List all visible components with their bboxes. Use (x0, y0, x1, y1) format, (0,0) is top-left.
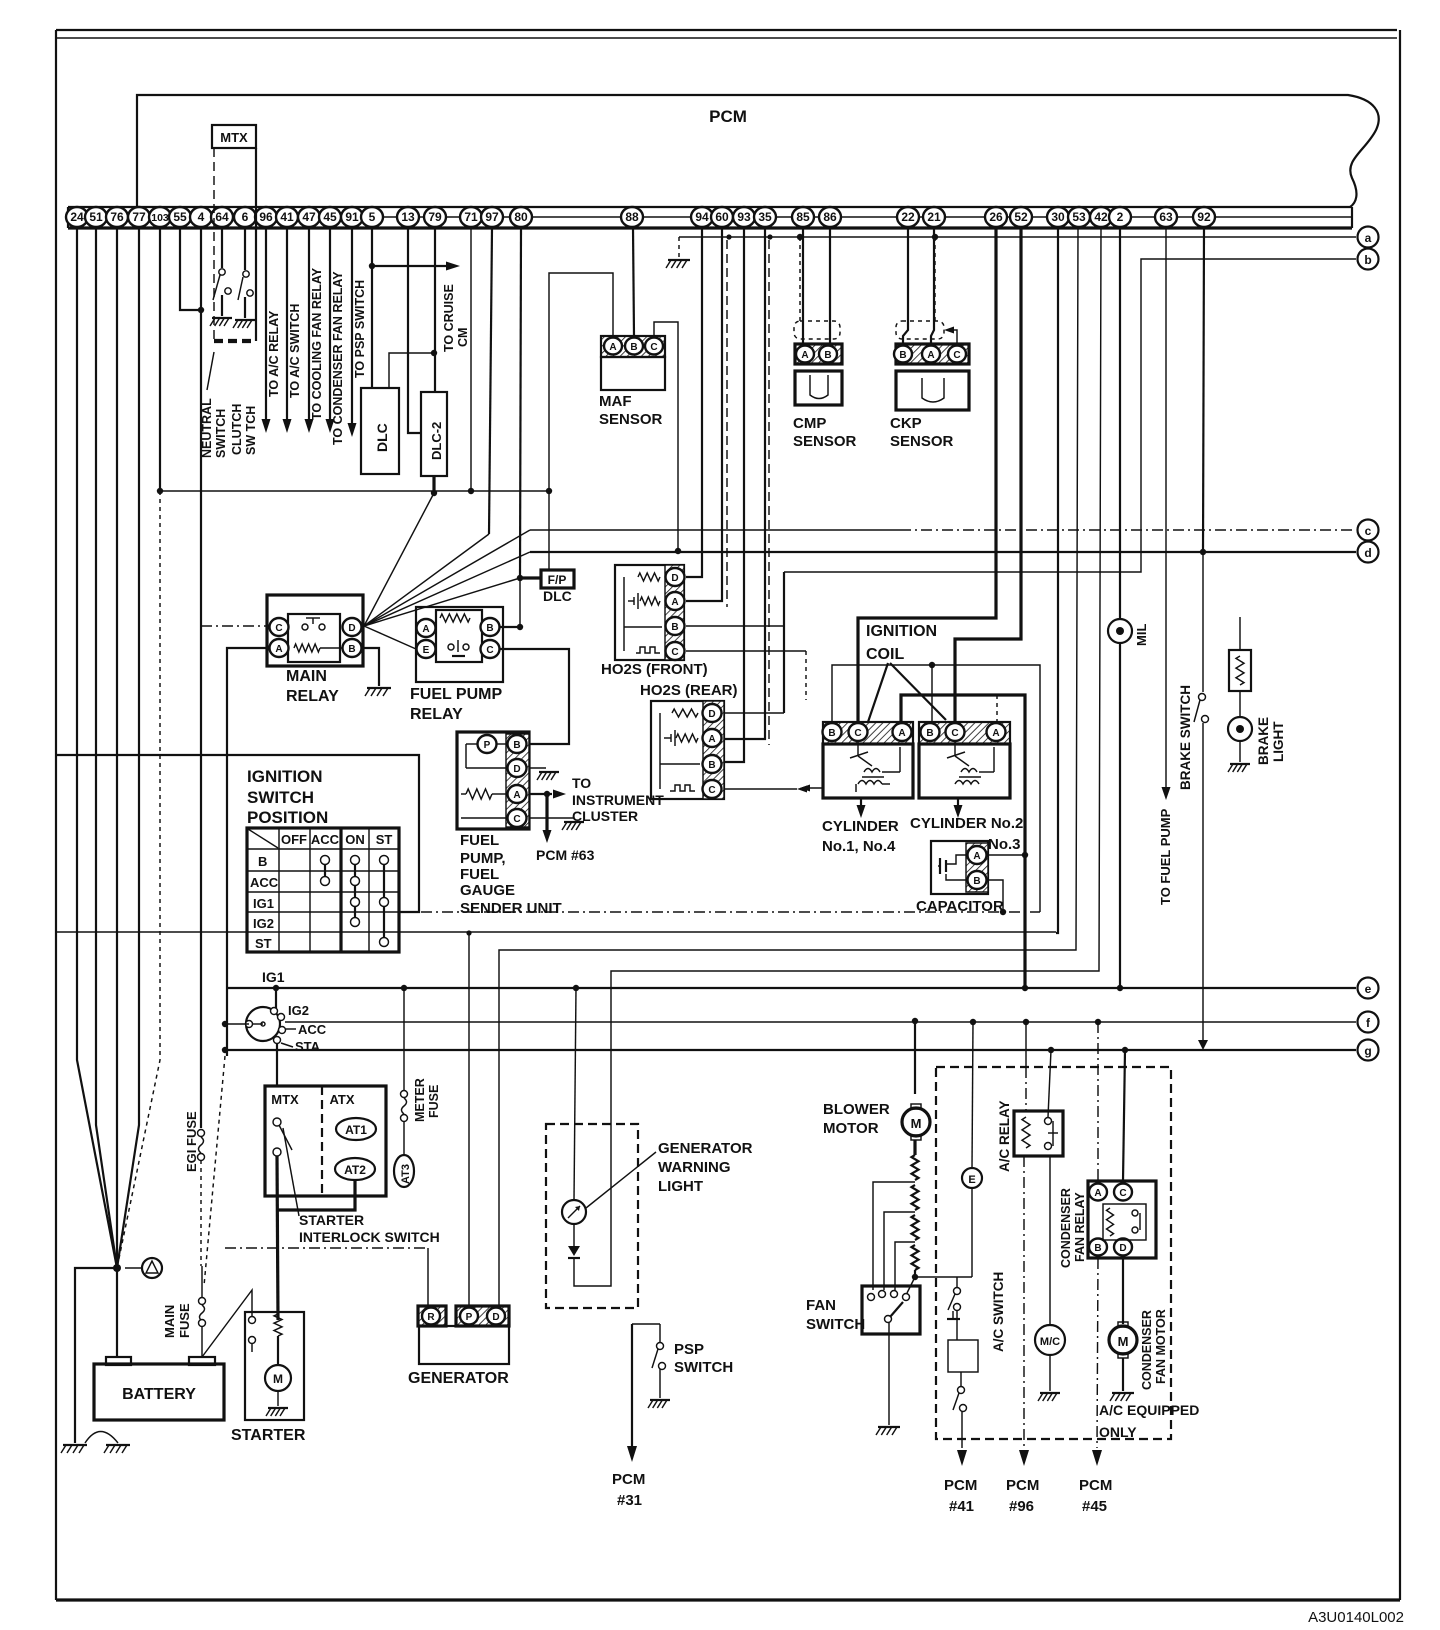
svg-text:OFF: OFF (281, 832, 307, 847)
svg-text:A: A (671, 597, 678, 608)
junction pin 103 / MAF feed (157, 488, 163, 494)
PCM pin 85 (792, 207, 814, 227)
PCM module outline (137, 95, 1379, 208)
svg-text:R: R (427, 1312, 435, 1323)
starter interlock label pointer (283, 1128, 299, 1216)
coil1 spark output arrow (802, 787, 823, 789)
A/C thermo box (956, 1311, 958, 1340)
lower-left section box (56, 755, 419, 912)
wire pin 13 to DLC-2 (408, 228, 421, 433)
wire capacitor B to ground line (988, 880, 1003, 912)
CKP cable shield (934, 237, 936, 323)
ignition coil 1 body (823, 744, 913, 798)
fuel pump relay pin E (417, 640, 436, 658)
svg-text:63: 63 (1159, 210, 1173, 224)
wire front B to rear D riser (686, 625, 784, 627)
main relay pin C (270, 618, 289, 636)
interlock switch contacts (273, 1118, 281, 1126)
svg-text:ACC: ACC (250, 875, 279, 890)
fuel pump relay pin C (481, 640, 500, 658)
wire pin 85 to CMP A (802, 228, 804, 344)
svg-text:A: A (992, 728, 999, 739)
PSP switch (657, 1343, 664, 1350)
generator main strip (456, 1306, 509, 1326)
generator warning line pin 42 (611, 228, 1101, 1201)
ground neutral switch (212, 317, 232, 319)
PCM pin 13 (397, 207, 419, 227)
wire AT2 to starter line (278, 1180, 355, 1210)
node f bus line IG2 (285, 1021, 1356, 1023)
junction CKP shield on bus a (932, 234, 938, 240)
table contacts ACC column (324, 860, 326, 881)
node a (1358, 227, 1379, 248)
ignition coil 1 connector strip (823, 722, 913, 744)
svg-text:51: 51 (89, 210, 103, 224)
PCM pin 35 (754, 207, 776, 227)
generator warning lamp (562, 1200, 586, 1224)
wire pin 26 to coil1 C (858, 228, 996, 722)
svg-text:CYLINDER No.2: CYLINDER No.2 (910, 815, 1023, 832)
svg-text:B: B (630, 342, 637, 353)
dashed link coil2 A (996, 695, 998, 722)
ground junction node (113, 1264, 121, 1272)
svg-text:GAUGE: GAUGE (460, 882, 515, 899)
svg-text:A/C EQUIPPED: A/C EQUIPPED (1099, 1402, 1199, 1418)
wire pin 5 to DLC (371, 228, 373, 388)
svg-text:PCM: PCM (1006, 1477, 1039, 1494)
svg-text:CLUTCH: CLUTCH (230, 404, 244, 455)
junction IG1 wire (273, 985, 279, 991)
svg-text:STARTER: STARTER (231, 1427, 306, 1444)
shield front A dashed (726, 240, 728, 607)
svg-text:ACC: ACC (311, 832, 340, 847)
svg-text:LIGHT: LIGHT (658, 1178, 703, 1195)
svg-text:DLC: DLC (543, 588, 572, 604)
ignition switch body (246, 1007, 280, 1041)
condenser fan motor (1109, 1326, 1137, 1354)
svg-text:B: B (258, 854, 267, 869)
svg-text:CKP: CKP (890, 415, 922, 432)
HO2S rear pin C (703, 780, 722, 798)
MIL lamp (1108, 619, 1132, 643)
node b bus line (784, 259, 1356, 572)
blower resistor chain (913, 1140, 916, 1155)
DLC-2 connector box (421, 392, 447, 476)
wire A/C relay to magnetic clutch (1049, 1156, 1051, 1325)
warning light label pointer (586, 1152, 656, 1208)
fuel pump relay outer box (416, 607, 503, 682)
svg-text:WARNING: WARNING (658, 1159, 731, 1176)
capacitor feed from coil power line (988, 854, 1025, 856)
wire A/C relay coil to PCM 96 (1023, 1156, 1025, 1448)
svg-text:E: E (968, 1174, 975, 1186)
wire sender D to ground (529, 767, 546, 769)
svg-text:METER: METER (413, 1078, 427, 1122)
svg-text:COIL: COIL (866, 646, 904, 663)
wire pin 41 to A/C switch (286, 228, 288, 428)
svg-text:#41: #41 (949, 1498, 974, 1515)
svg-text:MAIN: MAIN (162, 1305, 177, 1338)
wire pin 52 to coil2 C (955, 228, 1021, 722)
svg-text:TO A/C SWITCH: TO A/C SWITCH (288, 304, 302, 398)
resistor tap 2 (884, 1212, 915, 1290)
svg-text:a: a (1365, 231, 1372, 245)
svg-text:D: D (671, 573, 678, 584)
fan wire D to bus c (364, 530, 530, 626)
junction A/C relay on bus g (1048, 1047, 1054, 1053)
sender pin A (508, 785, 527, 803)
PCM pin 51 (85, 207, 107, 227)
fan wire D to fuel pump relay E (364, 626, 416, 649)
junction blower on bus f (912, 1018, 918, 1024)
PCM pin 47 (298, 207, 320, 227)
HO2S rear outer box (651, 701, 724, 799)
PCM pin 86 (819, 207, 841, 227)
coil2 internals (954, 742, 956, 756)
PCM pin 30 (1047, 207, 1069, 227)
node f (1358, 1012, 1379, 1033)
svg-text:P: P (466, 1312, 473, 1323)
long row line y=912 dash-dot (421, 911, 1040, 913)
wire to PCM 41 (961, 1411, 963, 1448)
brake switch wire lower to bus g (1202, 723, 1204, 1044)
svg-text:C: C (275, 623, 282, 634)
svg-text:GENERATOR: GENERATOR (658, 1140, 753, 1157)
wire DLC-2 to junction (432, 476, 435, 493)
svg-text:No.1, No.4: No.1, No.4 (822, 838, 896, 855)
svg-text:#96: #96 (1009, 1498, 1034, 1515)
meter fuse (401, 1091, 408, 1098)
PCM pin 64 (211, 207, 233, 227)
svg-text:#31: #31 (617, 1492, 642, 1509)
wire pin 94 to front D (686, 228, 702, 577)
MAF sensor body (601, 357, 665, 390)
HO2S rear pin strip (703, 701, 724, 799)
long row line y=932 (57, 931, 247, 933)
wire pin 96 to A/C relay (265, 228, 267, 428)
svg-text:13: 13 (401, 210, 415, 224)
svg-text:DLC-2: DLC-2 (429, 422, 444, 460)
svg-text:92: 92 (1197, 210, 1211, 224)
table contacts ST column (383, 860, 385, 942)
wire pin 6 to clutch switch (244, 228, 246, 270)
node d (1358, 542, 1379, 563)
PCM pin 24 (66, 207, 88, 227)
warning light dashed box (546, 1124, 638, 1308)
svg-text:SWITCH: SWITCH (674, 1359, 733, 1376)
wire junction to battery minus (116, 1268, 118, 1357)
fan switch ground wire (888, 1323, 890, 1425)
svg-text:A: A (513, 790, 520, 801)
svg-text:45: 45 (323, 210, 337, 224)
PCM pin 5 (361, 207, 383, 227)
MTX enclosure dashed (213, 148, 215, 341)
wire pin103/DLC junction line (160, 490, 549, 492)
svg-text:IGNITION: IGNITION (247, 767, 323, 786)
svg-text:FUEL PUMP: FUEL PUMP (410, 686, 502, 703)
resistor tap 1 (873, 1182, 915, 1290)
svg-text:TO: TO (572, 775, 591, 791)
svg-text:C: C (671, 647, 678, 658)
main fuse (201, 1266, 203, 1297)
svg-text:TO FUEL PUMP: TO FUEL PUMP (1158, 808, 1173, 905)
svg-text:MTX: MTX (220, 130, 248, 145)
CMP cable shield (799, 237, 801, 323)
wire DLC second pin (389, 353, 434, 388)
wire front C stub (686, 650, 806, 652)
svg-text:RELAY: RELAY (410, 706, 463, 723)
table header diagonal (248, 829, 278, 848)
svg-text:IGNITION: IGNITION (866, 623, 937, 640)
wire coil power A (901, 695, 1025, 988)
svg-text:SW TCH: SW TCH (244, 406, 258, 455)
fan switch box (862, 1286, 920, 1334)
svg-text:BRAKE SWITCH: BRAKE SWITCH (1178, 685, 1193, 790)
PCM pin 103 (149, 207, 171, 227)
junction coil power on bus e (1022, 985, 1028, 991)
PCM pin 88 (621, 207, 643, 227)
wire bus g to condenser relay switch (1123, 1050, 1125, 1181)
fuel pump relay inner body (436, 610, 482, 662)
fan wire D to F/P DLC (364, 578, 520, 626)
brake switch wire upper (1202, 552, 1204, 692)
fan wire D to DLC junction (364, 493, 434, 626)
brake light feed stub (1239, 617, 1241, 650)
coil2 output arrow down (957, 798, 959, 808)
wire pin 63 to fuel pump (1165, 228, 1167, 788)
wire pin 35 to rear A (724, 228, 765, 739)
resistor tap 3 (895, 1242, 915, 1290)
svg-text:AT3: AT3 (400, 1164, 412, 1184)
sender pin B (508, 735, 527, 753)
svg-text:TO CONDENSER FAN RELAY: TO CONDENSER FAN RELAY (331, 271, 345, 445)
svg-text:ONLY: ONLY (1099, 1424, 1137, 1440)
PCM pin strip (68, 206, 1352, 208)
MTX label box (212, 125, 256, 148)
neutral switch label (207, 352, 214, 390)
wire pin 88 to MAF B (633, 228, 634, 336)
wire fuel pump relay C to sender B (500, 649, 569, 744)
svg-text:SWITCH: SWITCH (247, 788, 314, 807)
svg-text:SENSOR: SENSOR (599, 411, 663, 428)
svg-text:64: 64 (215, 210, 229, 224)
svg-text:CM: CM (456, 328, 470, 347)
CMP sensor connector (795, 344, 842, 364)
svg-text:INSTRUMENT: INSTRUMENT (572, 792, 664, 808)
svg-text:SWITCH: SWITCH (214, 409, 228, 458)
HO2S front internals (623, 577, 625, 651)
wire F/P DLC from junction (548, 491, 550, 571)
svg-text:P: P (484, 740, 491, 751)
svg-text:B: B (824, 350, 831, 361)
svg-text:A: A (275, 644, 282, 655)
svg-text:D: D (708, 709, 715, 720)
brake light ground (1239, 741, 1241, 762)
svg-text:80: 80 (514, 210, 528, 224)
wire pin 60 to front A (686, 228, 722, 601)
PCM pin 63 (1155, 207, 1177, 227)
pointer lines from label to coils (868, 663, 888, 722)
svg-text:M/C: M/C (1040, 1336, 1060, 1348)
shield rear A dashed (768, 240, 770, 745)
wire rear D to riser (724, 712, 784, 714)
wire meter fuse (403, 988, 405, 1090)
wire pin 80 to F/P DLC junction (520, 228, 521, 578)
junction condenser relay on bus g (1122, 1047, 1128, 1053)
PCM pin 77 (128, 207, 150, 227)
svg-text:B: B (486, 623, 493, 634)
svg-text:CMP: CMP (793, 415, 826, 432)
svg-text:FUEL: FUEL (460, 866, 499, 883)
wire IG1 to ignition switch (275, 988, 277, 1008)
wire pin 4 / EGI fuse feed (200, 228, 202, 1128)
svg-text:60: 60 (715, 210, 729, 224)
svg-text:93: 93 (737, 210, 751, 224)
wire MAF A feed riser (549, 273, 613, 491)
wire STA to interlock switch (276, 1044, 278, 1086)
warning light diode (573, 1224, 575, 1246)
A/C relay box (1014, 1111, 1063, 1156)
wire pin 86 to CMP B (829, 228, 831, 344)
svg-text:ON: ON (345, 832, 365, 847)
wire pin 71 (470, 228, 472, 491)
svg-text:76: 76 (110, 210, 124, 224)
svg-text:NEUTRAL: NEUTRAL (200, 398, 214, 458)
brake light lamp (1228, 717, 1252, 741)
wire sender A junction (529, 793, 552, 795)
sender pin P (478, 735, 497, 753)
MAF pin C (645, 338, 663, 355)
ground main relay (367, 687, 391, 689)
ignition switch position table (247, 828, 399, 952)
wire pin 79 to DLC-2 (434, 228, 436, 392)
svg-text:24: 24 (70, 210, 84, 224)
svg-text:SENDER UNIT: SENDER UNIT (460, 900, 562, 917)
svg-text:MIL: MIL (1134, 624, 1149, 646)
arrow to instrument cluster (553, 790, 566, 799)
generator P riser (468, 933, 470, 1306)
PCM pin 21 (923, 207, 945, 227)
svg-text:SWITCH: SWITCH (806, 1316, 865, 1333)
HO2S front pin D (666, 568, 685, 586)
svg-text:5: 5 (369, 210, 376, 224)
svg-text:ATX: ATX (329, 1092, 354, 1107)
svg-text:M: M (911, 1116, 922, 1131)
fuel pump relay switch (448, 644, 454, 650)
svg-text:IG2: IG2 (253, 916, 274, 931)
wire diode to riser (574, 1201, 611, 1286)
svg-text:ACC: ACC (298, 1022, 327, 1037)
wire pin 92 (1203, 228, 1204, 552)
svg-text:B: B (926, 728, 933, 739)
svg-text:STARTER: STARTER (299, 1212, 364, 1228)
A/C lower switch (960, 1372, 962, 1386)
svg-text:MAF: MAF (599, 393, 632, 410)
main relay inner body (288, 614, 340, 662)
node g bus line B+ (225, 1049, 1356, 1051)
sender pin C (508, 809, 527, 827)
svg-text:A: A (609, 342, 616, 353)
svg-text:c: c (1365, 524, 1372, 538)
magnetic clutch M/C (1035, 1325, 1065, 1355)
svg-text:HO2S (REAR): HO2S (REAR) (640, 682, 738, 699)
starter motor (277, 1336, 279, 1365)
svg-text:STA: STA (295, 1039, 321, 1054)
svg-text:DLC: DLC (374, 423, 390, 452)
svg-text:PCM: PCM (709, 107, 747, 126)
svg-text:TO PSP SWITCH: TO PSP SWITCH (353, 280, 367, 378)
junction MAF C on bus d (675, 548, 681, 554)
wire pin 47 to cooling fan relay (308, 228, 310, 428)
svg-text:A3U0140L002: A3U0140L002 (1308, 1609, 1404, 1626)
svg-text:IG1: IG1 (262, 969, 285, 985)
HO2S rear internals (659, 713, 661, 789)
CKP sensor connector (896, 344, 969, 364)
svg-text:PSP: PSP (674, 1341, 704, 1358)
wire pin 21 to CKP A (931, 228, 934, 344)
starter solenoid contacts (249, 1317, 256, 1324)
wire bus f to blower motor (914, 1021, 916, 1094)
junction meter fuse on bus e (401, 985, 407, 991)
ignition coil 2 connector strip (919, 722, 1010, 744)
wire CKP C link (948, 330, 957, 344)
svg-text:TO CRUISE: TO CRUISE (442, 284, 456, 352)
fuel pump sender outer box (457, 732, 529, 829)
svg-text:BRAKE: BRAKE (1256, 717, 1271, 765)
generator R strip (418, 1306, 446, 1326)
svg-text:96: 96 (259, 210, 273, 224)
fan wire D to pin 97 (364, 534, 489, 626)
svg-text:MTX: MTX (271, 1092, 299, 1107)
svg-text:A: A (422, 624, 429, 635)
wire pin 77 to ground junction (117, 228, 139, 1268)
svg-text:41: 41 (280, 210, 294, 224)
clutch switch (243, 271, 249, 277)
svg-text:55: 55 (173, 210, 187, 224)
capacitor element (939, 858, 941, 874)
svg-text:A: A (708, 734, 715, 745)
main relay coil (294, 644, 320, 652)
wire pin 24 to ground junction (77, 228, 117, 1268)
wire junction to chassis ground (75, 1268, 117, 1443)
PCM pin 79 (424, 207, 446, 227)
svg-text:B: B (973, 876, 980, 887)
wire pin 2 to MIL (1119, 228, 1121, 619)
wire main relay A to battery rail (227, 648, 269, 1056)
main relay pin D (343, 618, 362, 636)
svg-text:B: B (671, 622, 678, 633)
svg-text:TO COOLING FAN RELAY: TO COOLING FAN RELAY (310, 267, 324, 420)
svg-text:CONDENSER: CONDENSER (1140, 1310, 1154, 1390)
wire main relay B to ground (362, 648, 379, 686)
svg-text:EGI FUSE: EGI FUSE (184, 1111, 199, 1172)
junction warning light on bus e (573, 985, 579, 991)
main relay switch contacts (302, 624, 308, 630)
condenser fan relay box (1088, 1181, 1156, 1258)
svg-text:E: E (423, 645, 430, 656)
wire main fuse to battery + (201, 1326, 203, 1357)
node g (1358, 1040, 1379, 1061)
svg-text:BATTERY: BATTERY (122, 1386, 196, 1403)
fuel pump relay coil (440, 614, 470, 622)
svg-text:C: C (1119, 1188, 1126, 1199)
svg-text:d: d (1364, 546, 1371, 560)
AT1 terminal (336, 1118, 376, 1140)
junction CMP shield on bus a (797, 234, 803, 240)
svg-text:2: 2 (1117, 210, 1124, 224)
junction F/P DLC (517, 575, 523, 581)
svg-text:PCM #63: PCM #63 (536, 847, 595, 863)
